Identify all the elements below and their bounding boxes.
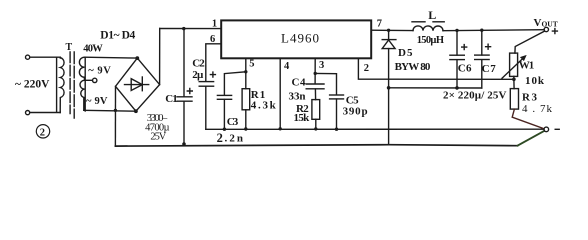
svg-text:7: 7 xyxy=(377,18,382,29)
svg-text:L: L xyxy=(428,8,436,22)
diode D5 BYW80 xyxy=(388,30,390,39)
pin 5 wire xyxy=(245,58,247,88)
svg-text:5: 5 xyxy=(249,59,254,70)
plus C7 xyxy=(485,44,491,50)
input terminal top xyxy=(26,55,30,59)
svg-text:BYW 80: BYW 80 xyxy=(395,61,431,73)
wire bridge right vertex to top rail xyxy=(159,29,161,85)
plus C2 xyxy=(210,71,216,77)
minus output terminal xyxy=(544,127,549,132)
wire input top xyxy=(30,56,61,59)
svg-text:~ 9V: ~ 9V xyxy=(88,65,111,76)
wire secondary bottom tap xyxy=(84,109,136,112)
wire R3 to minus terminal xyxy=(512,109,543,128)
svg-text:C6: C6 xyxy=(458,62,472,74)
svg-text:15k: 15k xyxy=(294,112,311,124)
svg-text:D1~ D4: D1~ D4 xyxy=(100,30,135,42)
svg-text:D5: D5 xyxy=(398,47,413,59)
capacitor C5 xyxy=(330,94,344,96)
capacitor C1 xyxy=(183,29,185,97)
plus C6 xyxy=(461,44,467,50)
svg-text:4: 4 xyxy=(284,61,290,72)
resistor R1 xyxy=(242,89,250,110)
plus Vout xyxy=(552,28,558,34)
wire pin5 to C3 xyxy=(224,72,245,95)
wire W1 to R3 xyxy=(513,76,515,88)
svg-text:VOUT: VOUT xyxy=(534,17,558,29)
svg-text:~ 220V: ~ 220V xyxy=(15,79,50,91)
svg-text:C7: C7 xyxy=(482,63,497,75)
bridge rectifier diamond xyxy=(116,58,160,111)
svg-text:~ 9V: ~ 9V xyxy=(86,96,108,107)
capacitor C4 xyxy=(306,83,324,85)
potentiometer W1 xyxy=(510,53,518,76)
circled figure number 2 xyxy=(36,125,49,138)
ground link C6 C7 to D5 anode xyxy=(389,87,482,89)
svg-text:C1: C1 xyxy=(165,93,178,105)
svg-text:L4960: L4960 xyxy=(281,31,319,46)
plus C1 xyxy=(187,88,193,94)
svg-text:4 . 7k: 4 . 7k xyxy=(522,103,553,115)
bridge inner diode xyxy=(125,84,149,86)
svg-text:4.3k: 4.3k xyxy=(251,100,277,112)
main bottom rail xyxy=(115,145,517,146)
wire secondary top tap to bridge xyxy=(84,56,137,59)
wire pin3 to C5 xyxy=(315,73,336,94)
svg-text:1: 1 xyxy=(212,18,217,29)
svg-text:10k: 10k xyxy=(525,75,545,87)
minus sign xyxy=(555,128,559,130)
svg-text:2: 2 xyxy=(217,131,223,145)
pin 7 wire xyxy=(371,29,413,31)
resistor R2 xyxy=(314,89,316,100)
svg-text:33n: 33n xyxy=(289,91,306,103)
W1 wiper arrow xyxy=(502,57,524,78)
pin 3 wire xyxy=(314,58,316,84)
inductor L xyxy=(413,26,443,31)
center tap terminal xyxy=(93,78,97,82)
svg-text:2× 220µ/ 25V: 2× 220µ/ 25V xyxy=(443,90,507,102)
svg-text:2µ: 2µ xyxy=(192,69,204,81)
input terminal bottom xyxy=(26,111,30,115)
svg-text:C3: C3 xyxy=(227,116,239,128)
top rail left xyxy=(160,28,221,30)
svg-text:150µH: 150µH xyxy=(417,35,444,46)
svg-text:6: 6 xyxy=(210,34,215,45)
inductor core dashes xyxy=(412,21,425,23)
potentiometer W1 top lead xyxy=(515,31,545,53)
svg-text:W 1: W 1 xyxy=(519,59,535,71)
pin 2 feedback wire xyxy=(358,58,514,79)
top rail right xyxy=(443,30,544,31)
svg-text:3: 3 xyxy=(319,60,324,71)
pin 4 ground wire xyxy=(279,58,281,129)
capacitor C2 xyxy=(199,81,213,83)
svg-text:C2: C2 xyxy=(192,57,205,69)
svg-text:R3: R3 xyxy=(522,92,538,104)
svg-text:2: 2 xyxy=(40,127,45,138)
Vout terminal xyxy=(544,27,548,31)
center tap wire xyxy=(84,79,92,81)
wire input bottom xyxy=(30,112,60,113)
transformer T primary winding xyxy=(56,57,58,112)
IC U1 L4960 box xyxy=(221,20,371,58)
transformer T secondary winding xyxy=(84,57,86,111)
wire bridge left vertex down to bottom rail xyxy=(114,86,116,145)
capacitor C7 xyxy=(481,30,483,55)
signal ground bus xyxy=(206,128,544,130)
svg-text:T: T xyxy=(66,42,73,53)
svg-text:40W: 40W xyxy=(83,44,103,55)
capacitor C6 xyxy=(456,30,458,55)
svg-text:2: 2 xyxy=(364,63,369,74)
svg-text:C4: C4 xyxy=(292,76,307,88)
plus sign marks xyxy=(187,28,559,94)
transformer core xyxy=(69,52,71,114)
pin 6 wire xyxy=(206,44,221,81)
capacitor C3 xyxy=(217,94,231,96)
svg-text:390p: 390p xyxy=(343,106,368,118)
resistor R3 xyxy=(510,89,518,110)
svg-text:25V: 25V xyxy=(150,131,166,142)
